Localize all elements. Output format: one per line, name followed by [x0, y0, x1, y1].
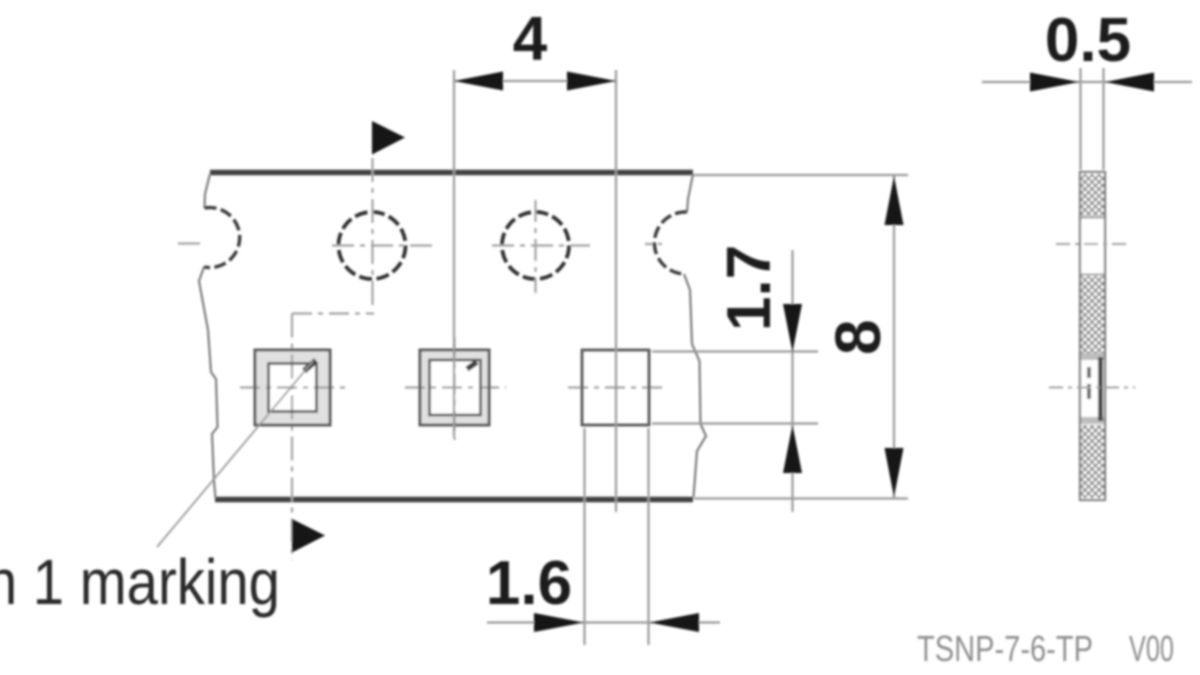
side view sprocket centerline: [1056, 243, 1130, 245]
svg-text:pin 1 marking: pin 1 marking: [0, 546, 280, 618]
dim 8 extension bottom: [694, 497, 908, 499]
side view pocket centerline: [1049, 387, 1135, 389]
centerline sprocket2 vertical: [534, 200, 536, 293]
centerline pocket1 vertical: [291, 314, 293, 561]
pocket P3 (empty): [582, 350, 649, 425]
pocket P1 inner: [269, 364, 317, 412]
leader line to pin1 marking: [157, 361, 313, 547]
centerline right notch tick: [645, 243, 662, 245]
dim 1.6 extension left: [583, 428, 585, 645]
pocket P2 band fill: [420, 350, 489, 425]
dim 0.5 arrow right: [1105, 73, 1154, 92]
side view strip outline: [1080, 172, 1105, 500]
centerline left notch tick: [178, 242, 200, 244]
side view sprocket gap line: [1081, 217, 1104, 219]
pocket P1 band fill: [255, 350, 330, 425]
centerline sprocket2 horizontal: [492, 244, 590, 246]
side view pocket cap top: [1081, 353, 1104, 360]
dim 1.7 extension top: [652, 350, 818, 352]
side view hatch mid: [1081, 276, 1104, 353]
tape top edge: [210, 170, 693, 175]
tape bottom edge: [215, 497, 693, 502]
svg-text:TSNP-7-6-TP: TSNP-7-6-TP: [917, 628, 1093, 669]
dim 8 arrow bottom: [885, 448, 904, 497]
dim 1.7 arrow top: [783, 304, 802, 352]
centerline pocket2 vertical: [453, 337, 455, 440]
dim 0.5 line: [982, 81, 1192, 83]
left break edge: [199, 174, 218, 498]
dim 8 extension top: [694, 174, 908, 176]
sprocket hole 2: [502, 212, 569, 279]
dim 4 line: [454, 80, 616, 82]
dim 1.6 extension right: [647, 428, 649, 645]
side view extension left: [1079, 68, 1081, 170]
right notch arc (partial sprocket hole): [654, 212, 687, 274]
pocket P2 outer: [420, 350, 489, 425]
dim 8 arrow top: [885, 176, 904, 225]
svg-text:1.6: 1.6: [486, 549, 572, 618]
orientation triangle bottom: [292, 519, 325, 553]
dim 1.7 line: [791, 250, 793, 512]
left notch arc (half sprocket hole): [204, 208, 240, 268]
centerline pocket1 horizontal: [240, 386, 350, 388]
pocket P1 pin1 mark: [304, 361, 316, 372]
centerline sprocket1 horizontal: [332, 244, 432, 246]
dim 8 line: [893, 176, 895, 498]
side view sprocket gap line2: [1081, 274, 1104, 276]
centerline pocket2 horizontal: [405, 386, 506, 388]
centerline sprocket1 vertical: [371, 158, 373, 310]
right break edge: [684, 174, 706, 497]
side view pocket deep wall: [1098, 357, 1103, 421]
orientation triangle top: [372, 121, 405, 155]
svg-text:1.7: 1.7: [715, 245, 784, 331]
pocket P2 inner: [430, 360, 481, 415]
centerline jog horizontal: [292, 312, 374, 314]
dim 4 extension line right: [615, 70, 617, 512]
dim 1.7 arrow bottom: [783, 425, 802, 473]
side view extension right: [1102, 68, 1104, 170]
pocket P2 pin1 mark: [467, 362, 477, 369]
dim 4 extension line left: [453, 70, 455, 437]
side view hatch bottom: [1081, 425, 1104, 498]
centerline pocket3 horizontal: [568, 386, 664, 388]
dim 1.7 extension bottom: [652, 422, 818, 424]
svg-text:V00: V00: [1129, 628, 1174, 669]
dim 4 arrow left: [454, 72, 503, 91]
dim 1.6 line: [487, 621, 720, 623]
dim 1.6 arrow right: [650, 613, 700, 632]
side view hatch top: [1081, 174, 1104, 216]
sprocket hole 1: [339, 212, 406, 279]
pocket P1 outer: [255, 350, 330, 425]
side view component marks: [1087, 367, 1091, 378]
side view pocket cap bottom: [1081, 417, 1104, 424]
dim 4 arrow right: [567, 72, 616, 91]
svg-text:4: 4: [513, 5, 548, 74]
dim 1.6 arrow left: [534, 613, 584, 632]
svg-text:0.5: 0.5: [1045, 6, 1131, 75]
svg-text:8: 8: [822, 319, 894, 355]
dim 0.5 arrow left: [1030, 73, 1079, 92]
